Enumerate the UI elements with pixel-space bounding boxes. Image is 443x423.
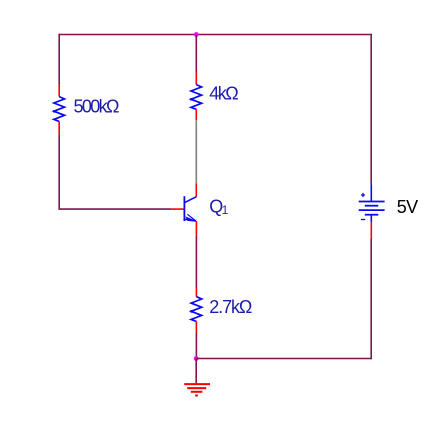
resistor R3 pin top <box>195 288 197 297</box>
svg-text:4kΩ: 4kΩ <box>209 84 239 104</box>
resistor R3 pin bottom <box>195 321 197 333</box>
resistor R1 500kΩ zigzag <box>54 97 65 122</box>
wire left vertical upper <box>58 34 60 84</box>
svg-text:5V: 5V <box>397 197 419 217</box>
transistor Q1 emitter pin <box>195 221 197 236</box>
wire left vertical lower <box>58 135 60 210</box>
resistor R1 midpoint dot <box>53 110 56 113</box>
battery V1 pin bottom <box>370 222 372 239</box>
wire right vertical upper <box>370 34 372 184</box>
transistor Q1 body <box>184 196 196 221</box>
svg-text:1: 1 <box>222 203 229 217</box>
resistor R2 midpoint dot <box>190 98 193 101</box>
node junction bottom (net dot) <box>194 356 199 361</box>
resistor R2 pin top <box>195 72 197 84</box>
resistor R1 pin bottom <box>58 121 60 134</box>
resistor R2 4kΩ zigzag <box>191 85 202 110</box>
wire bottom horizontal <box>196 358 371 360</box>
wire middle vertical mid <box>195 236 197 288</box>
transistor Q1 base pin <box>172 208 185 210</box>
wire gray collector segment <box>195 120 197 183</box>
resistor R1 pin top <box>58 84 60 97</box>
wire ground stub <box>195 359 197 385</box>
wire top horizontal <box>59 34 371 36</box>
ground symbol <box>184 384 210 395</box>
transistor Q1 collector pin <box>195 183 197 196</box>
svg-text:500kΩ: 500kΩ <box>74 96 120 116</box>
node junction top (net dot) <box>194 32 199 37</box>
wire right vertical lower <box>370 239 372 359</box>
resistor R3 midpoint dot <box>190 310 193 313</box>
wire middle vertical to bottom junction <box>195 333 197 359</box>
svg-text:2.7kΩ: 2.7kΩ <box>209 297 252 317</box>
resistor R3 2.7kΩ zigzag <box>191 297 202 322</box>
wire base horizontal <box>58 208 171 210</box>
resistor R2 pin bottom <box>195 109 197 120</box>
battery V1 body <box>359 184 385 222</box>
wire middle vertical upper <box>195 35 197 73</box>
